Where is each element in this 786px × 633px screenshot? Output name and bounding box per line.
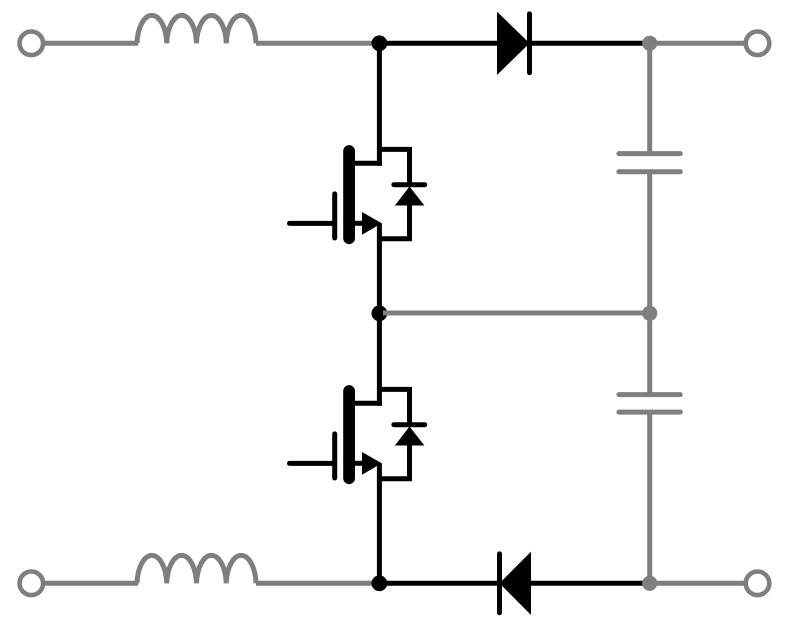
Q1 gate lead <box>290 221 335 226</box>
Q1 body diode triangle <box>395 187 425 206</box>
node M (mid-left) junction dot <box>372 305 388 321</box>
Q2 gate lead <box>290 461 335 466</box>
wire node A down to Q1 drain <box>377 43 382 165</box>
terminal IN+ (top-left) <box>20 32 44 56</box>
wire node M2 down to C2 <box>647 313 652 394</box>
wire L2 to node C <box>256 581 376 586</box>
Q1 source arrow <box>362 212 382 235</box>
capacitor C2 <box>619 395 680 413</box>
wire node A to D1 and to node B <box>379 41 644 46</box>
wire node C to D2 and node D <box>379 581 644 586</box>
Q1 source stub <box>352 221 364 226</box>
wire node B to terminal OUT+ <box>650 41 746 46</box>
diode D2 <box>500 552 532 615</box>
Q1 drain stub <box>352 161 382 166</box>
Q1 body diode top wire <box>379 149 409 184</box>
capacitor C1 <box>619 154 680 172</box>
Q2 source arrow <box>362 452 382 475</box>
Q1 channel bar <box>343 151 355 238</box>
transistor Q2 (lower MOSFET) <box>290 313 425 583</box>
wire terminal to L2 <box>44 581 138 586</box>
wire C2 down to node C <box>647 412 652 583</box>
Q2 source stub <box>352 461 364 466</box>
node M2 junction dot (mid-right) <box>642 306 657 321</box>
transistor Q1 (upper MOSFET) <box>290 43 425 313</box>
diode D1 <box>497 12 530 75</box>
wire node M down to Q2 drain <box>377 313 382 405</box>
Q1 body diode bottom wire <box>379 204 409 239</box>
wire node B down to C1 <box>647 43 652 153</box>
Q1 gate bar <box>332 194 337 238</box>
wire Q1 source down to node M <box>377 223 382 313</box>
inductor L1 <box>137 15 256 43</box>
wire node D to terminal OUT- <box>650 581 746 586</box>
wire node M to node M2 (midpoint rail) <box>383 311 650 316</box>
node B junction dot (top-right) <box>642 36 657 51</box>
Q2 gate bar <box>332 434 337 478</box>
terminal OUT+ (top-right) <box>746 32 770 56</box>
Q2 body diode triangle <box>395 427 425 446</box>
wire terminal to L1 <box>44 41 138 46</box>
wire L1 to node A <box>256 41 376 46</box>
terminal IN- (bottom-left) <box>20 572 44 596</box>
Q2 body diode bottom wire <box>379 444 409 479</box>
Q2 body diode cathode bar <box>394 422 425 427</box>
wire Q2 source down to node C <box>377 463 382 583</box>
Q2 body diode top wire <box>379 389 409 424</box>
inductor L2 <box>137 555 256 583</box>
Q2 drain stub <box>352 401 382 406</box>
node D junction dot (bottom-right) <box>642 576 657 591</box>
node A junction dot <box>372 35 388 51</box>
node C junction dot <box>372 575 388 591</box>
Q2 channel bar <box>343 391 355 478</box>
Q1 body diode cathode bar <box>394 182 425 187</box>
terminal OUT- (bottom-right) <box>746 572 770 596</box>
wire C1 to node M2 <box>647 172 652 314</box>
